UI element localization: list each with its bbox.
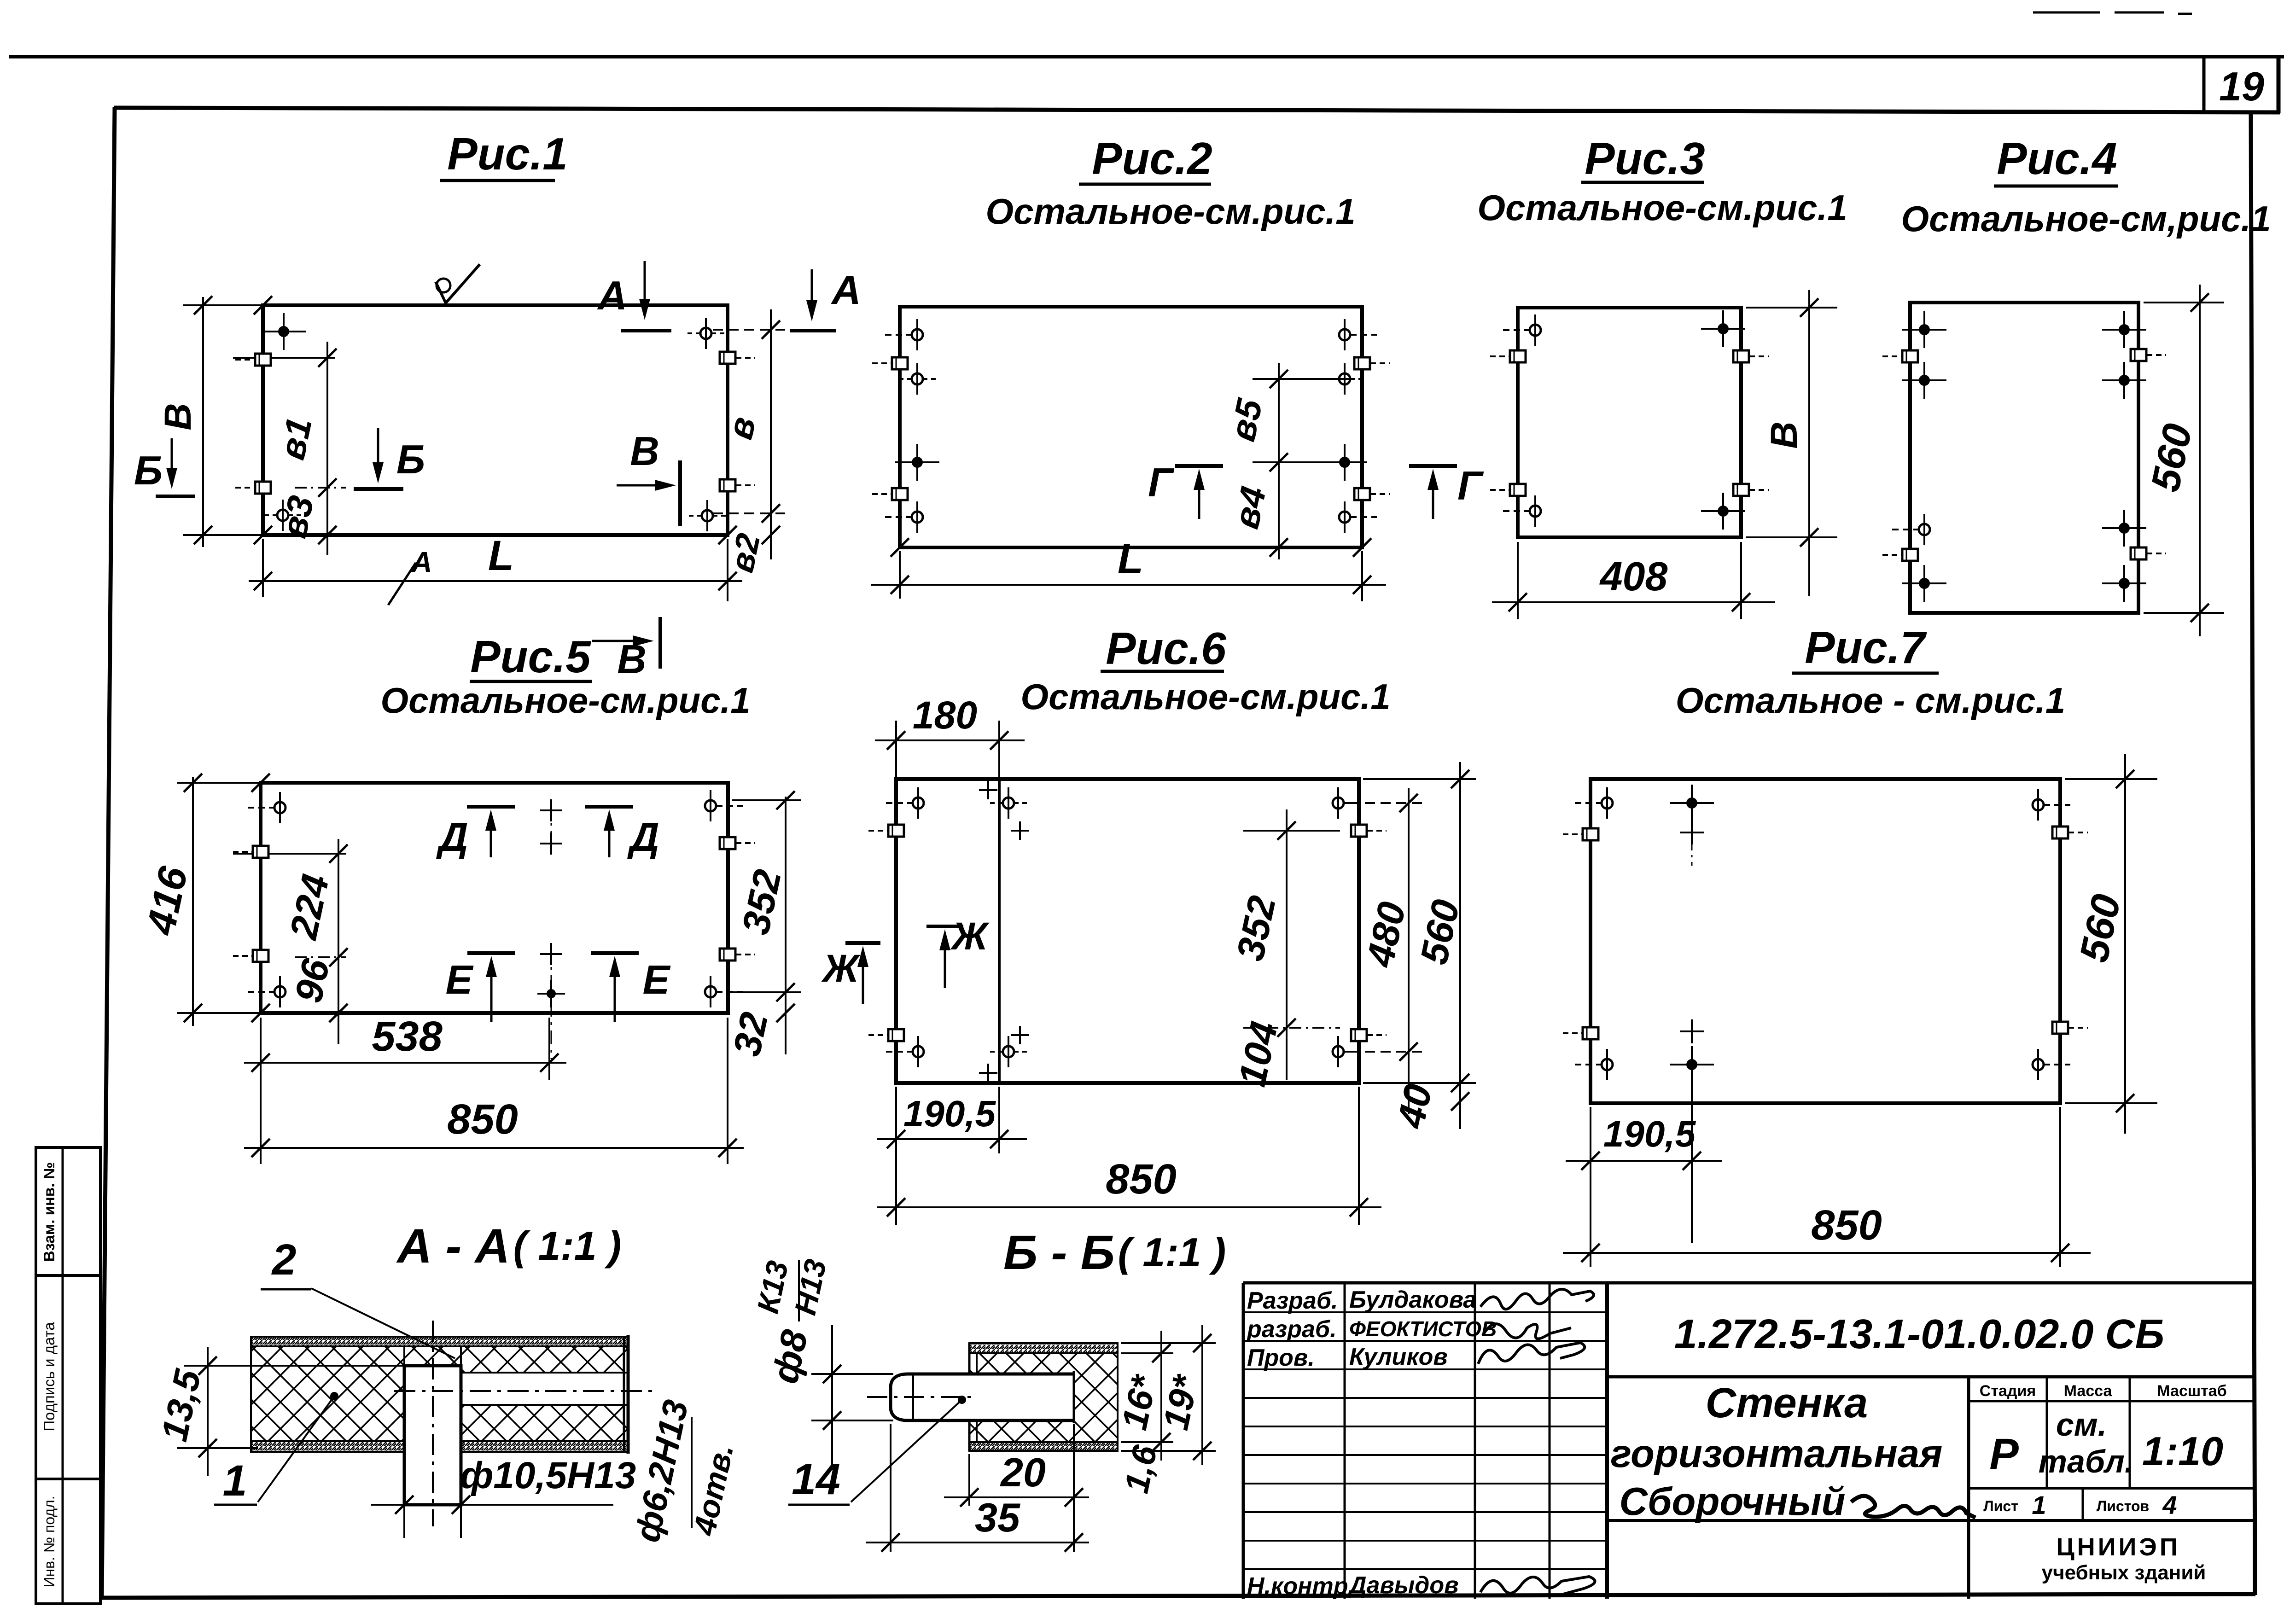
sheet top edge line [9, 55, 2284, 58]
fig5 dimension 538 [548, 1018, 550, 1080]
fig7 lug bottom-right [2052, 1022, 2068, 1034]
fig3 bolt bottom-right [1718, 506, 1729, 517]
fig5 dimension 416 left [192, 777, 194, 1026]
svg-text:Д: Д [436, 814, 468, 860]
svg-text:Рис.7: Рис.7 [1805, 622, 1927, 673]
A-A bottom skin strip [251, 1441, 628, 1452]
svg-text:Булдакова: Булдакова [1349, 1286, 1476, 1313]
fig7 bolt top-right [2033, 799, 2044, 810]
svg-text:Н.контр: Н.контр [1247, 1573, 1348, 1600]
fig7 lug top-left [1583, 828, 1598, 840]
A-A right core upper band [461, 1346, 628, 1373]
fig7 bolt bottom-left outer [1602, 1059, 1613, 1070]
svg-text:Масса: Масса [2064, 1382, 2113, 1400]
B-B dimension f8 [831, 1325, 833, 1470]
svg-text:Разраб.: Разраб. [1247, 1287, 1338, 1314]
fig3 bolt top-right [1718, 323, 1729, 334]
fig1 bolt bottom-right [702, 510, 713, 521]
svg-text:горизонтальная: горизонтальная [1611, 1432, 1942, 1476]
left margin box Inv [36, 1479, 100, 1604]
fig5 section arrow D right [585, 805, 633, 809]
fig3 lug top-left [1510, 350, 1526, 362]
fig1 surface finish mark [436, 264, 480, 303]
svg-text:408: 408 [1599, 553, 1668, 599]
fig6 bolts left [913, 797, 924, 809]
fig1 lug top-left [255, 354, 271, 366]
fig7 dimension 190,5 [1590, 1107, 1591, 1175]
fig7 bolt bottom-right [2033, 1059, 2044, 1070]
fig1 dimension V left [202, 297, 204, 547]
fig1 bolt top-left [278, 326, 289, 337]
svg-text:В: В [617, 636, 647, 682]
fig3 lug top-right [1733, 350, 1749, 362]
title block outer [1243, 1281, 2253, 1285]
fig1 lug bottom-left [255, 482, 271, 494]
A-A leader dot for part 1 [330, 1392, 338, 1400]
fig7 dimension 850 [2059, 1107, 2061, 1267]
fig7 lug bottom-left [1583, 1027, 1598, 1039]
B-B dimension 20 [1073, 1424, 1075, 1552]
A-A bushing plug [404, 1366, 461, 1505]
svg-text:Взам. инв. №: Взам. инв. № [41, 1162, 58, 1262]
fig5 dimension 224 [338, 839, 339, 1044]
fig6 view arrow Zh inside [926, 925, 963, 928]
svg-text:32: 32 [725, 1009, 776, 1060]
fig2 lugs right [1354, 357, 1370, 369]
svg-text:Остальное-см.рис.1: Остальное-см.рис.1 [1477, 187, 1847, 228]
fig4 bolts right column [2119, 324, 2130, 335]
signature table columns [1344, 1283, 1346, 1599]
svg-text:Остальное-см.рис.1: Остальное-см.рис.1 [380, 680, 750, 721]
svg-text:Масштаб: Масштаб [2157, 1382, 2226, 1400]
B-B dowel pin [891, 1374, 1074, 1420]
fig3 dimension V right [1808, 290, 1810, 596]
A-A left core block [251, 1346, 404, 1441]
fig2 dimension L bottom [899, 551, 901, 599]
fig3 panel outline [1518, 308, 1741, 537]
svg-text:Б: Б [396, 437, 425, 482]
svg-text:4: 4 [2162, 1490, 2177, 1519]
svg-text:Б - Б: Б - Б [1003, 1226, 1115, 1280]
fig2 section arrow G left [1175, 464, 1223, 468]
B-B dimension 19* [1201, 1325, 1203, 1465]
signature Feoktistov scribble [1483, 1324, 1571, 1339]
svg-text:Лист: Лист [1983, 1498, 2018, 1514]
fig5 view arrow Zh [845, 941, 880, 945]
fig1 lug bottom-right [720, 479, 735, 491]
fig1 section arrow A right [811, 269, 813, 303]
left margin box Podpis [36, 1275, 100, 1479]
fig1 dimension L bottom [262, 539, 264, 597]
svg-text:Е: Е [446, 957, 474, 1002]
fig1 dimension v1 line [326, 342, 328, 555]
fig7 panel outline [1591, 779, 2060, 1103]
A-A dimension 13,5 [207, 1347, 209, 1476]
svg-text:Пров.: Пров. [1247, 1345, 1315, 1371]
fig2 panel outline [900, 307, 1362, 547]
svg-text:В: В [630, 428, 659, 474]
signature Kulikov scribble [1478, 1343, 1585, 1364]
fig5 corner ticks [251, 774, 270, 792]
fig7 bolt top-left inner [1686, 797, 1697, 809]
svg-text:538: 538 [372, 1013, 443, 1060]
fig3 bolt top-left [1530, 325, 1541, 336]
fig2 dimension v5 v4 [1278, 363, 1280, 559]
fig5 dimension 850 [260, 1018, 262, 1164]
svg-text:850: 850 [1106, 1156, 1177, 1203]
svg-text:L: L [1118, 536, 1143, 582]
svg-text:А: А [597, 273, 627, 318]
svg-text:табл.: табл. [2039, 1444, 2134, 1479]
svg-text:Рис.1: Рис.1 [447, 128, 567, 179]
list row [1969, 1487, 2253, 1490]
svg-text:190,5: 190,5 [903, 1093, 996, 1134]
svg-text:180: 180 [913, 693, 977, 737]
svg-text:Листов: Листов [2097, 1498, 2149, 1514]
svg-text:L: L [488, 532, 514, 579]
svg-text:в4: в4 [1225, 483, 1274, 532]
fig5 section arrow E left [467, 951, 515, 955]
fig6 dimension 480 [1408, 788, 1410, 1114]
svg-text:( 1:1 ): ( 1:1 ) [1118, 1229, 1226, 1275]
svg-text:Куликов: Куликов [1349, 1344, 1448, 1370]
signature Davydov scribble [1480, 1577, 1595, 1594]
fig3 lug bottom-right [1733, 484, 1749, 496]
fig1 lug top-right [720, 352, 735, 364]
fig7 lug top-right [2052, 827, 2068, 838]
fig5 view arrow V near caption [592, 640, 635, 642]
A-A vertical centerline [432, 1321, 434, 1526]
fig5 section arrow D left [467, 805, 515, 809]
fig5 dimension 352 right [785, 797, 787, 1054]
svg-text:Сборочный: Сборочный [1620, 1480, 1846, 1524]
svg-text:1:10: 1:10 [2142, 1428, 2223, 1474]
fig1 section arrow B inside [377, 428, 379, 465]
svg-text:Инв. № подл.: Инв. № подл. [41, 1496, 58, 1587]
fig6 dimension 560 [1459, 762, 1461, 1129]
svg-text:Б: Б [134, 448, 163, 493]
fig1 section arrow A top [644, 261, 646, 302]
svg-text:Остальное - см.рис.1: Остальное - см.рис.1 [1676, 680, 2066, 721]
svg-text:Рис.4: Рис.4 [1997, 133, 2117, 184]
svg-text:Г: Г [1148, 460, 1175, 505]
svg-text:В: В [157, 403, 199, 430]
fig7 bolt top-left outer [1602, 797, 1613, 809]
fig6 dimension 40 [1451, 1092, 1469, 1111]
svg-text:А: А [831, 267, 861, 313]
svg-text:Остальное-см.рис.1: Остальное-см.рис.1 [985, 191, 1355, 232]
fig2 bolt row right [1339, 329, 1350, 340]
top right corner dashes [2033, 12, 2100, 14]
A-A end plate right [623, 1337, 625, 1452]
title block document number cell [1607, 1375, 2253, 1379]
svg-text:Р: Р [1989, 1430, 2019, 1478]
fig6 dimension 352 [1286, 809, 1288, 1080]
svg-text:Ж: Ж [821, 947, 861, 990]
svg-text:190,5: 190,5 [1603, 1113, 1696, 1154]
fig5 center marks [540, 809, 562, 811]
svg-text:2: 2 [271, 1235, 297, 1284]
B-B left edge double line [968, 1343, 971, 1451]
fig6 bolts at inner edge [1003, 797, 1014, 809]
fig4 panel outline [1910, 303, 2138, 613]
svg-text:разраб.: разраб. [1246, 1316, 1337, 1343]
fig7 bolt bottom-left inner [1680, 1030, 1704, 1032]
svg-text:Рис.6: Рис.6 [1106, 623, 1227, 674]
B-B dimension 16* [1160, 1331, 1162, 1461]
svg-text:Стенка: Стенка [1706, 1380, 1868, 1426]
A-A right core lower band [461, 1405, 628, 1441]
svg-text:Рис.5: Рис.5 [470, 631, 591, 682]
fig6 dimension 180 top [895, 721, 897, 783]
signature table rows [1243, 1311, 1607, 1313]
fig5 section arrow E right [591, 951, 639, 955]
B-B pin hole [969, 1374, 1074, 1420]
svg-text:( 1:1 ): ( 1:1 ) [513, 1223, 622, 1269]
B-B top skin strip [969, 1343, 1118, 1353]
svg-text:В: В [1763, 421, 1805, 448]
svg-text:850: 850 [447, 1096, 518, 1143]
svg-text:19: 19 [2219, 64, 2264, 109]
A-A core above plug [404, 1346, 461, 1366]
B-B dimension 35 [890, 1424, 891, 1552]
fig6 panel outline [896, 779, 1359, 1083]
svg-text:Рис.3: Рис.3 [1585, 133, 1705, 184]
B-B core block [969, 1353, 1118, 1442]
svg-text:Ж: Ж [950, 914, 990, 958]
svg-text:в2: в2 [723, 530, 768, 576]
svg-text:ФЕОКТИСТОВ: ФЕОКТИСТОВ [1349, 1317, 1497, 1341]
fig3 dimension 408 [1517, 542, 1519, 619]
svg-text:35: 35 [975, 1495, 1020, 1540]
fig5 panel outline [261, 783, 728, 1013]
A-A plug width dimension [403, 1505, 405, 1538]
title block right columns divider [1967, 1377, 1970, 1599]
signature Buldakova scribble [1480, 1289, 1594, 1309]
svg-text:ЦНИИЭП: ЦНИИЭП [2056, 1533, 2180, 1561]
svg-text:Стадия: Стадия [1980, 1382, 2036, 1400]
svg-text:1: 1 [223, 1456, 247, 1505]
B-B bottom skin strip [969, 1442, 1118, 1451]
drawing frame [114, 108, 2280, 112]
fig5 bolts left [274, 802, 285, 813]
fig1 dimension v right [770, 309, 772, 559]
svg-text:1.272.5-13.1-01.0.02.0 СБ: 1.272.5-13.1-01.0.02.0 СБ [1674, 1311, 2164, 1357]
fig2 section arrow G right [1409, 464, 1457, 468]
svg-text:20: 20 [1000, 1449, 1046, 1495]
svg-text:ф10,5Н13: ф10,5Н13 [460, 1455, 636, 1496]
fig1 panel outline [263, 305, 728, 535]
svg-text:см.: см. [2056, 1407, 2107, 1443]
fig3 lug bottom-left [1510, 484, 1526, 496]
svg-text:Подпись и дата: Подпись и дата [41, 1322, 58, 1432]
fig1 section A mark bottom [388, 563, 416, 605]
fig6 inner edge line [998, 779, 1001, 1083]
svg-text:1: 1 [2032, 1490, 2046, 1519]
svg-text:Рис.2: Рис.2 [1092, 133, 1212, 184]
fig2 lugs left [892, 357, 908, 369]
fig6 dimension 850 [895, 1153, 897, 1225]
fig1 bolt top-right [700, 328, 711, 339]
fig1 bolt bottom-left [277, 510, 288, 521]
svg-text:учебных зданий: учебных зданий [2042, 1561, 2206, 1584]
svg-text:А: А [411, 547, 432, 578]
svg-text:в1: в1 [271, 414, 320, 463]
fig6 dimension 190,5 [895, 1087, 897, 1153]
fig1 corner ticks [254, 296, 272, 314]
fig4 dimension 560 right [2199, 285, 2201, 636]
fig6 bolts right [1333, 797, 1344, 809]
svg-text:Г: Г [1457, 463, 1484, 508]
B-B pin centerline [867, 1396, 972, 1398]
svg-text:Е: Е [643, 957, 671, 1002]
svg-text:850: 850 [1811, 1202, 1882, 1249]
fig1 section arrow B left outside [171, 438, 173, 471]
sheet number box [2202, 58, 2206, 112]
fig1 view arrow V right inside [617, 484, 658, 487]
fig5 bolts right [705, 800, 716, 811]
fig7 dimension 560 right [2124, 754, 2126, 1134]
stage mass scale header [1969, 1400, 2253, 1403]
left margin box Vzam [36, 1147, 100, 1275]
fig3 bolt bottom-left [1530, 506, 1541, 517]
svg-text:А - А: А - А [396, 1219, 510, 1273]
svg-text:Остальное-см,рис.1: Остальное-см,рис.1 [1901, 198, 2271, 239]
fig4 bolts left column [1919, 324, 1930, 335]
A-A top skin strip [251, 1337, 628, 1346]
svg-text:Давыдов: Давыдов [1347, 1572, 1459, 1599]
svg-text:Остальное-см.рис.1: Остальное-см.рис.1 [1020, 676, 1390, 717]
A-A dowel channel centerline [394, 1390, 658, 1392]
fig2 corner ticks [891, 538, 909, 557]
svg-text:Д: Д [627, 814, 659, 860]
fig2 bolt row left [912, 329, 923, 340]
